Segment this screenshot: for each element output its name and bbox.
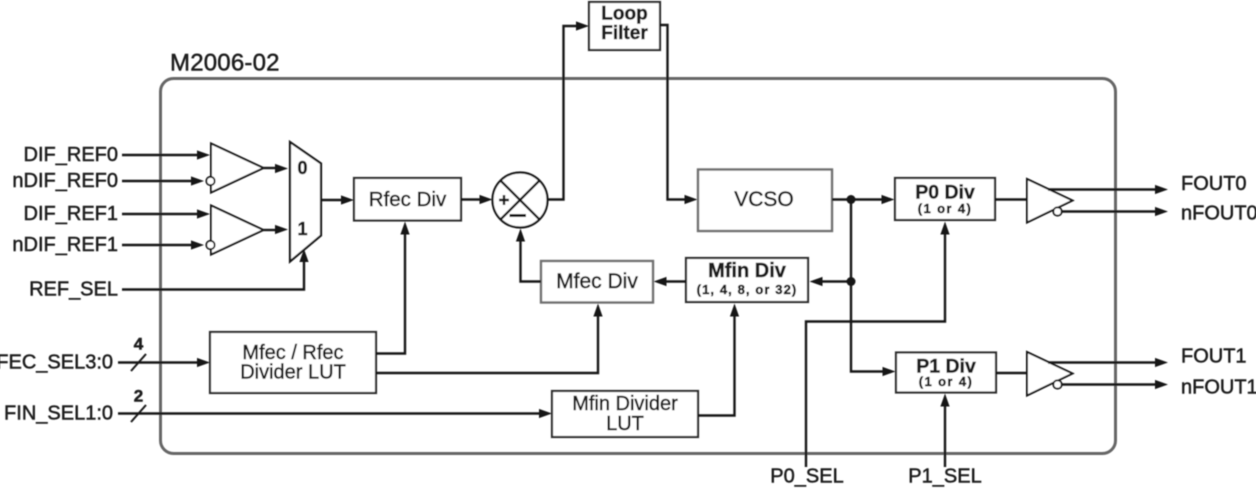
svg-text:nFOUT1: nFOUT1 — [1181, 377, 1256, 399]
wire DIF_REF1 — [122, 209, 210, 218]
input buffer A1 (DIF_REF0 pair) — [211, 144, 264, 193]
wire Mfec Div output to phase detector minus input — [516, 229, 541, 282]
wire P0 Div to output buffer — [995, 198, 1027, 200]
svg-text:nFOUT0: nFOUT0 — [1181, 203, 1256, 225]
wire P1 Div to output buffer — [996, 372, 1027, 374]
svg-text:REF_SEL: REF_SEL — [29, 279, 118, 301]
wire buffer A2 output to mux input 1 — [264, 225, 289, 234]
wire Mfin Div output to Mfec Div — [654, 277, 687, 286]
inverting bubble on U4 — [1053, 380, 1061, 388]
wire feedback trunk down to P1 Div — [851, 200, 896, 377]
svg-text:DIF_REF0: DIF_REF0 — [24, 144, 118, 166]
wire Mfin Divider LUT output to Mfin Div — [698, 304, 739, 416]
block Mfin Div — [686, 258, 808, 302]
block Mfin Divider LUT — [552, 391, 698, 437]
block Mfec Div — [541, 261, 653, 303]
wire FOUT0 — [1048, 185, 1168, 194]
svg-text:VCSO: VCSO — [734, 188, 794, 211]
svg-text:DIF_REF1: DIF_REF1 — [24, 203, 118, 225]
phase detector U2 (mixer) — [493, 173, 548, 228]
wire DIF_REF0 — [122, 150, 210, 159]
svg-text:Rfec Div: Rfec Div — [369, 188, 447, 211]
wire nFOUT0 — [1062, 207, 1168, 216]
wire FEC_SEL3:0 bus — [118, 354, 210, 371]
svg-text:nDIF_REF1: nDIF_REF1 — [12, 234, 118, 256]
wire mux output to Rfec Div — [321, 195, 354, 204]
wire P0_SEL to P0 Div — [806, 222, 950, 468]
svg-text:(1 or 4): (1 or 4) — [918, 201, 973, 216]
svg-text:(1, 4, 8, or 32): (1, 4, 8, or 32) — [697, 282, 798, 297]
svg-text:Divider LUT: Divider LUT — [240, 362, 346, 384]
mux U1 reference select — [290, 142, 321, 262]
svg-text:Loop: Loop — [601, 4, 647, 25]
svg-text:LUT: LUT — [606, 413, 644, 435]
svg-text:FEC_SEL3:0: FEC_SEL3:0 — [0, 352, 113, 374]
wire LUT output to Mfec Div — [376, 304, 603, 374]
wire Rfec Div output to phase detector — [461, 195, 493, 204]
block P0 Div — [895, 178, 995, 220]
svg-text:Mfin Div: Mfin Div — [708, 260, 787, 282]
wire nDIF_REF1 — [122, 240, 204, 249]
svg-text:1: 1 — [297, 219, 307, 239]
inverting bubble on A2 — [206, 241, 214, 249]
wire nFOUT1 — [1062, 380, 1168, 389]
wire LUT output to Rfec Div — [376, 222, 410, 354]
output buffer U3 (FOUT0) — [1027, 179, 1073, 223]
outer chip boundary box — [161, 79, 1116, 454]
junction at VCSO output — [847, 195, 856, 204]
svg-text:P1_SEL: P1_SEL — [908, 466, 981, 488]
wire VCSO output to P0 Div — [832, 195, 895, 204]
output buffer U4 (FOUT1) — [1027, 352, 1073, 396]
block VCSO — [698, 170, 832, 232]
svg-text:P0_SEL: P0_SEL — [770, 466, 843, 488]
inverting bubble on A1 — [206, 177, 214, 185]
inverting bubble on U3 — [1053, 207, 1061, 215]
wire REF_SEL to mux select — [122, 249, 309, 290]
input buffer A2 (DIF_REF1 pair) — [211, 206, 264, 255]
wire FOUT1 — [1048, 358, 1168, 367]
block P1 Div — [896, 353, 996, 393]
svg-text:FOUT0: FOUT0 — [1181, 173, 1247, 195]
svg-text:Filter: Filter — [601, 23, 648, 44]
wire buffer A1 output to mux input 0 — [264, 164, 289, 173]
wire nDIF_REF0 — [122, 176, 204, 185]
svg-text:M2006-02: M2006-02 — [170, 50, 280, 77]
block Rfec Div — [354, 178, 461, 221]
junction at feedback tap — [847, 277, 856, 286]
svg-text:0: 0 — [297, 158, 307, 178]
svg-text:Mfec Div: Mfec Div — [556, 270, 638, 293]
svg-text:FOUT1: FOUT1 — [1181, 346, 1247, 368]
block Mfec / Rfec Divider LUT — [210, 332, 376, 393]
svg-text:Mfin Divider: Mfin Divider — [572, 393, 678, 415]
svg-text:4: 4 — [134, 335, 144, 354]
svg-text:(1 or 4): (1 or 4) — [919, 374, 974, 389]
wire phase detector output to Loop Filter — [548, 21, 589, 199]
wire feedback tap to Mfin Div — [810, 277, 852, 286]
svg-text:FIN_SEL1:0: FIN_SEL1:0 — [4, 403, 113, 425]
wire FIN_SEL1:0 bus — [118, 405, 552, 422]
wire Loop Filter output to VCSO — [660, 25, 698, 204]
block Loop Filter — [589, 2, 660, 50]
wire P1_SEL to P1 Div — [940, 394, 949, 468]
svg-text:2: 2 — [134, 387, 143, 406]
svg-text:nDIF_REF0: nDIF_REF0 — [12, 170, 118, 192]
